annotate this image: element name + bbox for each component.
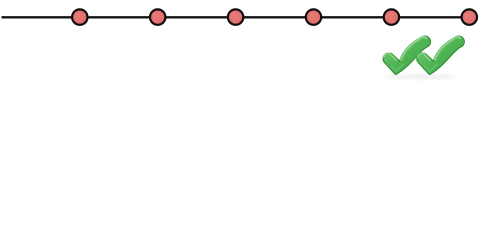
node 1: [72, 9, 87, 24]
node 6: [462, 9, 477, 24]
checkmark shadow: [384, 74, 456, 79]
wire: [2, 16, 470, 18]
left check: [383, 36, 430, 74]
node 4: [306, 9, 321, 24]
node 2: [150, 9, 165, 24]
right check: [417, 36, 464, 74]
node 5: [384, 9, 399, 24]
node 3: [228, 9, 243, 24]
double checkmark: [383, 36, 464, 74]
